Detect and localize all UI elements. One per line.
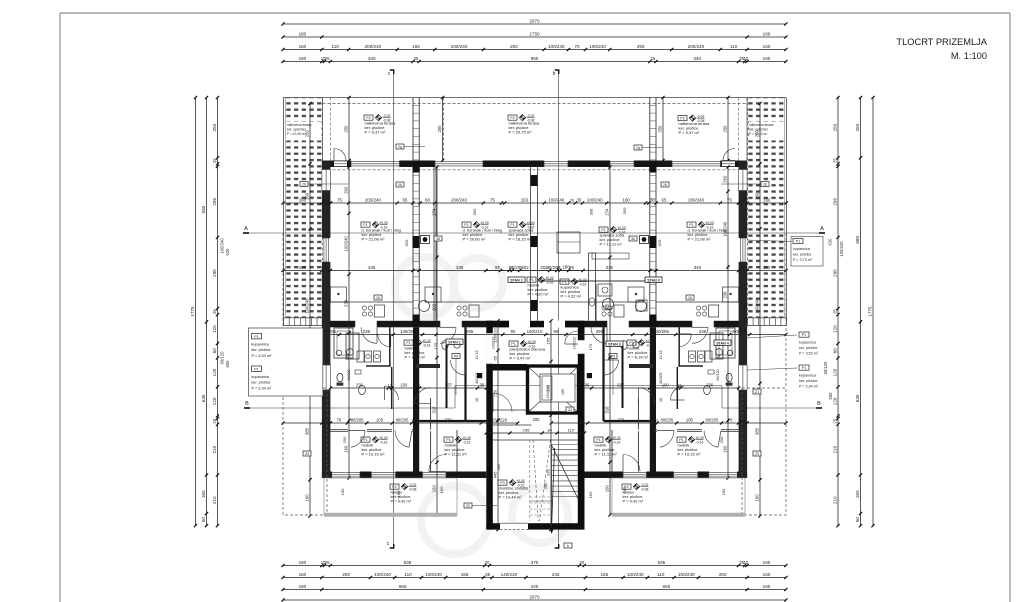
svg-text:20: 20 [580,560,585,565]
svg-text:105: 105 [686,417,694,422]
svg-text:620: 620 [828,238,833,246]
svg-text:25: 25 [414,56,419,61]
svg-text:600: 600 [225,360,230,368]
svg-text:100/210: 100/210 [573,337,577,350]
svg-text:160: 160 [299,584,307,589]
svg-text:100/240: 100/240 [304,298,309,314]
svg-text:220: 220 [492,389,497,396]
svg-text:80/205: 80/205 [660,417,673,422]
svg-text:1750: 1750 [529,31,540,36]
svg-text:2g: 2g [636,146,640,150]
svg-text:368: 368 [589,208,594,215]
svg-text:-0,16: -0,16 [696,440,704,444]
svg-text:36: 36 [585,382,590,387]
svg-text:P1: P1 [629,341,633,345]
svg-text:P = 2,94 m²: P = 2,94 m² [252,386,272,390]
svg-text:110: 110 [404,572,412,577]
svg-text:kupaonica: kupaonica [799,340,817,344]
svg-text:250: 250 [855,123,860,131]
svg-text:160: 160 [754,494,759,502]
svg-text:ker. pločice: ker. pločice [799,379,817,383]
svg-text:75: 75 [337,197,342,202]
svg-text:160: 160 [721,488,726,495]
svg-text:260: 260 [754,192,759,200]
svg-text:295: 295 [212,269,217,277]
svg-text:110: 110 [730,44,738,49]
svg-text:100: 100 [400,382,408,387]
svg-text:A: A [820,226,824,232]
svg-text:P = 10,15 m²: P = 10,15 m² [678,452,702,457]
svg-text:130/205: 130/205 [400,329,416,334]
svg-text:B: B [817,401,821,407]
svg-text:160: 160 [763,31,771,36]
svg-text:10: 10 [744,56,749,61]
svg-text:273: 273 [617,417,625,422]
svg-text:274: 274 [431,208,436,216]
svg-text:P = 9,37 m²: P = 9,37 m² [365,130,386,135]
svg-text:P = 11,11 m²: P = 11,11 m² [445,452,468,457]
svg-text:26: 26 [663,183,667,187]
svg-text:P = 3,53 m²: P = 3,53 m² [252,354,272,358]
svg-text:120: 120 [832,368,837,376]
svg-text:P = 10,40 m²: P = 10,40 m² [287,132,305,136]
svg-text:Z2: Z2 [466,504,470,508]
svg-text:160: 160 [299,572,307,577]
svg-text:-0,16: -0,16 [546,280,554,284]
svg-text:250: 250 [437,125,442,133]
svg-text:ker. pločice: ker. pločice [252,348,271,352]
svg-text:25: 25 [741,197,746,202]
svg-text:13: 13 [416,383,420,387]
svg-text:P1: P1 [679,438,683,442]
svg-text:335: 335 [456,265,464,270]
svg-text:P1: P1 [562,280,566,284]
svg-text:160: 160 [340,488,345,495]
svg-text:-0,16: -0,16 [463,440,471,444]
svg-text:220: 220 [545,384,550,391]
svg-text:202: 202 [540,265,548,270]
svg-text:P1: P1 [511,342,515,346]
svg-text:STAN 3: STAN 3 [608,342,621,346]
svg-text:90: 90 [511,329,516,334]
svg-text:274: 274 [604,208,609,216]
svg-text:160: 160 [763,56,771,61]
svg-text:295: 295 [212,198,217,206]
svg-text:200/240: 200/240 [688,197,704,202]
svg-text:Z1: Z1 [755,390,759,394]
svg-text:36: 36 [480,382,485,387]
svg-text:160: 160 [763,560,771,565]
svg-text:273: 273 [445,417,453,422]
svg-text:84: 84 [547,427,552,432]
svg-text:295: 295 [832,269,837,277]
svg-text:175: 175 [433,342,438,349]
svg-text:680: 680 [855,236,860,244]
svg-text:13: 13 [653,418,657,422]
svg-text:30/205: 30/205 [509,265,523,270]
svg-text:60/120: 60/120 [220,351,225,364]
svg-text:600: 600 [828,392,833,400]
svg-text:16: 16 [688,296,692,300]
svg-text:160: 160 [763,265,771,270]
svg-text:350: 350 [472,208,477,215]
svg-text:ker. pločice: ker. pločice [252,381,271,385]
svg-text:b: b [553,71,556,77]
svg-text:155: 155 [461,572,469,577]
svg-text:318: 318 [431,406,436,414]
svg-text:P1: P1 [802,333,806,337]
svg-text:-0,08: -0,08 [641,487,649,491]
svg-text:250: 250 [722,125,727,133]
svg-text:13: 13 [649,383,653,387]
svg-text:200/240: 200/240 [365,197,381,202]
svg-text:295: 295 [832,198,837,206]
svg-text:16: 16 [475,398,479,402]
svg-text:160: 160 [439,486,444,493]
svg-text:180: 180 [562,264,570,269]
svg-text:100/210: 100/210 [527,329,543,334]
svg-text:P = 3,73 m²: P = 3,73 m² [793,258,813,262]
svg-text:635: 635 [201,394,206,402]
svg-text:bet. opločnici: bet. opločnici [749,128,768,132]
svg-text:A: A [244,226,248,232]
svg-text:100/240: 100/240 [839,241,844,257]
svg-text:-0,16: -0,16 [423,343,431,347]
svg-text:P = 4,32 m²: P = 4,32 m² [561,294,582,299]
svg-text:237: 237 [617,382,625,387]
svg-text:P = 9,42 m²: P = 9,42 m² [623,499,644,504]
svg-text:STAN 4: STAN 4 [716,341,729,345]
svg-text:105: 105 [376,417,384,422]
svg-text:P2: P2 [680,117,684,121]
svg-text:160: 160 [763,44,771,49]
svg-text:445: 445 [492,471,497,478]
svg-text:P = 21,08 m²: P = 21,08 m² [362,237,386,242]
svg-text:163: 163 [521,197,529,202]
svg-text:-0,08: -0,08 [409,487,417,491]
svg-text:100/240: 100/240 [374,572,391,577]
svg-text:M. 1:100: M. 1:100 [951,51,987,61]
svg-text:P1: P1 [446,438,450,442]
svg-text:25: 25 [832,418,837,423]
svg-text:P = 9,42 m²: P = 9,42 m² [391,499,412,504]
svg-text:25: 25 [324,197,329,202]
svg-text:620: 620 [225,248,230,256]
svg-text:35: 35 [324,417,329,422]
svg-text:160: 160 [299,31,307,36]
svg-text:100/240: 100/240 [627,572,644,577]
svg-text:245: 245 [552,572,560,577]
svg-text:635: 635 [855,394,860,402]
svg-text:natkrivena terasa: natkrivena terasa [749,123,774,127]
svg-text:210: 210 [832,445,837,453]
svg-text:200: 200 [719,572,727,577]
svg-text:100/240: 100/240 [754,298,759,314]
svg-text:P1: P1 [596,438,600,442]
svg-text:25: 25 [325,560,330,565]
svg-text:255: 255 [637,44,645,49]
svg-text:P1: P1 [510,223,514,227]
svg-text:160: 160 [201,490,206,498]
svg-text:70: 70 [337,417,342,422]
svg-text:ker. pločice: ker. pločice [793,253,811,257]
svg-text:Z4: Z4 [568,408,572,412]
svg-text:160: 160 [304,494,309,502]
svg-text:B: B [245,401,249,407]
svg-text:P = 4,20 m²: P = 4,20 m² [528,292,549,297]
svg-text:85: 85 [717,354,721,358]
svg-text:13 15: 13 15 [659,351,663,360]
svg-text:340: 340 [693,56,701,61]
svg-text:P1: P1 [363,223,367,227]
svg-text:100/240: 100/240 [548,44,565,49]
svg-text:120: 120 [212,325,217,333]
svg-text:35: 35 [324,265,329,270]
svg-text:160: 160 [722,445,727,453]
svg-text:370: 370 [531,560,539,565]
svg-text:P1: P1 [406,341,410,345]
svg-text:250: 250 [510,44,518,49]
svg-text:60: 60 [832,348,837,354]
svg-text:260: 260 [722,175,727,183]
svg-text:P1: P1 [254,367,258,371]
svg-text:385: 385 [304,427,309,435]
svg-text:P1: P1 [802,366,806,370]
svg-text:90/205: 90/205 [733,329,747,334]
svg-text:P2: P2 [510,116,514,120]
svg-text:665: 665 [399,584,407,589]
svg-text:110: 110 [332,44,340,49]
svg-text:260: 260 [304,192,309,200]
svg-text:238: 238 [722,291,727,299]
svg-text:P = 11,11 m²: P = 11,11 m² [600,242,623,247]
svg-text:-0,16: -0,16 [579,282,587,286]
svg-text:25: 25 [212,418,217,423]
svg-text:238: 238 [699,329,707,334]
svg-text:P = 23,75 m²: P = 23,75 m² [509,130,533,135]
svg-text:155: 155 [600,572,608,577]
svg-text:165: 165 [545,337,550,344]
svg-text:238: 238 [343,299,348,307]
svg-text:25: 25 [325,56,330,61]
svg-text:156: 156 [523,427,530,432]
svg-text:-0,16: -0,16 [613,440,621,444]
svg-text:50: 50 [855,517,860,523]
svg-text:ker. pločice: ker. pločice [799,346,817,350]
svg-text:10: 10 [744,560,749,565]
svg-text:P = 8,19 m²: P = 8,19 m² [405,355,426,360]
svg-text:36: 36 [436,237,440,241]
svg-text:P = 2,94 m²: P = 2,94 m² [799,385,819,389]
svg-text:80/205: 80/205 [659,373,663,384]
svg-text:bet. opločnici: bet. opločnici [287,128,306,132]
svg-text:95: 95 [495,265,500,270]
svg-text:160: 160 [763,572,771,577]
svg-text:25: 25 [212,158,217,163]
svg-text:160: 160 [299,265,307,270]
svg-text:1775: 1775 [190,306,195,317]
svg-text:STAN 2: STAN 2 [510,278,523,282]
svg-text:350: 350 [622,207,627,214]
svg-text:160: 160 [623,197,631,202]
svg-text:P2: P2 [366,116,370,120]
svg-text:620: 620 [657,239,662,246]
svg-text:Z3: Z3 [755,452,759,456]
svg-text:60: 60 [212,348,217,354]
svg-text:STAN 1: STAN 1 [448,340,461,344]
svg-text:110: 110 [568,427,575,432]
svg-text:335: 335 [543,482,548,489]
svg-text:natkrivena terasa: natkrivena terasa [287,123,312,127]
svg-text:950: 950 [531,56,539,61]
svg-text:100/240: 100/240 [220,238,225,254]
svg-text:160: 160 [763,584,771,589]
svg-text:237: 237 [445,382,453,387]
svg-text:P5: P5 [454,355,458,359]
svg-text:155: 155 [412,44,420,49]
svg-text:160: 160 [588,491,593,498]
svg-text:P = 9,47 m²: P = 9,47 m² [510,356,531,361]
svg-text:P2: P2 [392,485,396,489]
svg-text:16: 16 [659,398,663,402]
svg-text:P1: P1 [689,223,693,227]
svg-text:80/205: 80/205 [396,417,409,422]
svg-text:200/240: 200/240 [451,44,468,49]
svg-text:65: 65 [403,197,408,202]
svg-text:200/240: 200/240 [365,44,382,49]
svg-text:335: 335 [545,468,550,475]
svg-text:90: 90 [553,329,558,334]
svg-text:305: 305 [604,303,609,311]
svg-text:340: 340 [368,265,376,270]
svg-text:P1: P1 [254,335,258,339]
svg-text:kupaonica: kupaonica [793,247,811,251]
svg-text:60/120: 60/120 [716,370,720,381]
svg-text:35: 35 [740,265,745,270]
svg-text:13: 13 [411,418,415,422]
svg-text:P1: P1 [601,228,605,232]
svg-text:318: 318 [604,406,609,414]
svg-text:26: 26 [302,183,306,187]
svg-text:80/205: 80/205 [351,417,364,422]
svg-text:35: 35 [741,417,746,422]
svg-text:80/205: 80/205 [475,373,479,384]
svg-text:P = 21,08 m²: P = 21,08 m² [688,237,712,242]
svg-text:385: 385 [754,427,759,435]
svg-text:30: 30 [576,197,581,202]
svg-text:25: 25 [212,309,217,314]
svg-text:250: 250 [343,125,348,133]
svg-text:P = 13,44 m²: P = 13,44 m² [499,495,523,500]
svg-text:1775: 1775 [867,306,872,317]
svg-text:P1: P1 [529,278,533,282]
svg-text:16: 16 [376,296,380,300]
svg-text:200: 200 [342,572,350,577]
svg-text:445: 445 [496,463,501,470]
svg-text:290: 290 [342,436,347,443]
svg-text:236: 236 [706,382,714,387]
svg-text:Z3: Z3 [305,452,309,456]
svg-text:25: 25 [832,309,837,314]
svg-text:635: 635 [658,560,666,565]
svg-text:P1: P1 [363,438,367,442]
svg-text:250: 250 [657,125,662,133]
svg-text:160: 160 [299,56,307,61]
svg-text:200/240: 200/240 [451,197,467,202]
svg-text:25: 25 [832,158,837,163]
svg-text:2070: 2070 [529,595,540,600]
svg-text:kupaonica: kupaonica [252,375,270,379]
svg-text:238: 238 [363,329,371,334]
svg-text:26: 26 [763,183,767,187]
svg-text:120/210: 120/210 [492,328,497,343]
svg-text:100/240: 100/240 [589,44,606,49]
svg-text:120: 120 [832,397,837,405]
svg-text:100/240: 100/240 [678,572,695,577]
svg-text:200/240: 200/240 [688,44,705,49]
svg-text:P = 18,15 m²: P = 18,15 m² [509,237,533,242]
svg-text:160: 160 [299,44,307,49]
svg-text:160: 160 [855,490,860,498]
svg-text:P = 10,15 m²: P = 10,15 m² [362,452,386,457]
svg-text:250: 250 [212,123,217,131]
svg-text:150/220: 150/220 [492,417,508,422]
svg-text:2070: 2070 [529,18,540,23]
svg-text:50: 50 [201,517,206,523]
svg-text:P = 10,40 m²: P = 10,40 m² [749,132,767,136]
svg-text:180: 180 [561,389,565,395]
svg-text:-0,16: -0,16 [380,440,388,444]
svg-text:160: 160 [431,485,436,493]
svg-text:635: 635 [404,560,412,565]
svg-text:80/205: 80/205 [705,417,718,422]
svg-text:P = 20,60 m²: P = 20,60 m² [463,237,487,242]
svg-text:620: 620 [404,239,409,246]
svg-text:25: 25 [651,56,656,61]
svg-text:100/240: 100/240 [425,572,442,577]
svg-text:60: 60 [425,197,430,202]
svg-text:340: 340 [694,265,702,270]
svg-text:P3: P3 [500,481,504,485]
svg-text:930: 930 [201,205,206,213]
svg-text:160: 160 [396,490,401,497]
svg-text:120: 120 [832,325,837,333]
svg-text:b: b [567,544,569,548]
svg-text:STAN 3: STAN 3 [647,278,660,282]
svg-text:100/240: 100/240 [548,197,564,202]
svg-text:200: 200 [533,417,541,422]
svg-text:75: 75 [490,197,495,202]
svg-text:160: 160 [763,197,771,202]
svg-text:90/205: 90/205 [323,329,337,334]
svg-text:665: 665 [662,584,670,589]
svg-text:P = 3,53 m²: P = 3,53 m² [799,352,819,356]
svg-text:P = 8,19 m²: P = 8,19 m² [628,355,649,360]
svg-text:140/220: 140/220 [501,572,518,577]
svg-text:160: 160 [343,445,348,453]
svg-text:20: 20 [485,560,490,565]
svg-text:-0,16: -0,16 [646,343,654,347]
svg-text:340: 340 [368,56,376,61]
svg-text:kupaonica: kupaonica [799,373,817,377]
svg-text:P1: P1 [464,223,468,227]
svg-text:35: 35 [485,572,491,577]
svg-text:175: 175 [588,343,593,350]
svg-text:160: 160 [604,485,609,493]
svg-text:60/120: 60/120 [823,361,828,374]
svg-text:65: 65 [492,355,497,360]
svg-text:65: 65 [662,197,667,202]
